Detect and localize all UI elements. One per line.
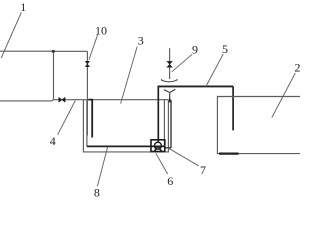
leader line 9 [172, 54, 192, 72]
pump 6: legs [155, 147, 162, 151]
funnel mouth under vent pipe [162, 79, 177, 82]
tank/box 1 (left vessel) [0, 51, 54, 101]
leader line 6 [156, 153, 168, 174]
svg-text:3: 3 [138, 34, 144, 48]
pump 6: impeller circle [154, 142, 161, 149]
wire: vertical branch through valve 10 down into tank 3 [86, 51, 88, 135]
node: junction at box1 top right [52, 50, 55, 53]
wire: transfer pipe 5 to box 2 [158, 85, 234, 87]
leader line 4 [58, 100, 76, 134]
leader line 1 [1, 13, 21, 59]
svg-text:8: 8 [94, 186, 100, 200]
leader line 10 [89, 35, 98, 60]
svg-text:1: 1 [20, 0, 26, 14]
dark corner segment bottom right of tank 3 [165, 100, 171, 148]
wire: pump discharge riser [157, 86, 159, 143]
svg-text:4: 4 [50, 134, 56, 148]
dip tube: feed pipe drop inside tank 3 [88, 99, 92, 138]
wire: drop tube into box 2 [232, 86, 234, 130]
svg-text:5: 5 [222, 42, 228, 56]
wire: top pipe from box1 to valve10 branch [54, 50, 88, 52]
valve 4 [59, 97, 65, 102]
valve 9 [167, 61, 173, 67]
tank 3 inner shell [87, 100, 164, 146]
funnel body on tank 3 (Y shape) [164, 89, 175, 98]
svg-text:7: 7 [200, 163, 206, 177]
wire: feed pipe from box1 through valve 4, continues as tank3 top edge [54, 99, 169, 101]
leader line 3 [121, 47, 138, 104]
vent pipe with valve 9 [169, 48, 171, 79]
svg-text:6: 6 [167, 174, 173, 188]
tank 3 outer shell [83, 100, 168, 152]
tank 3 inner bottom (dark) [87, 145, 165, 147]
leader line 5 [206, 54, 223, 87]
tank/box 2 (right vessel) [217, 97, 302, 154]
svg-text:10: 10 [95, 23, 107, 37]
svg-text:2: 2 [295, 60, 301, 74]
leader line 7 [168, 148, 199, 166]
leader line 8 [97, 147, 107, 186]
pump 6: outer box [151, 140, 165, 152]
leader line 2 [272, 73, 296, 118]
valve 10 [85, 61, 89, 66]
svg-text:9: 9 [192, 43, 198, 57]
dark mark on box 2 bottom [219, 153, 239, 155]
